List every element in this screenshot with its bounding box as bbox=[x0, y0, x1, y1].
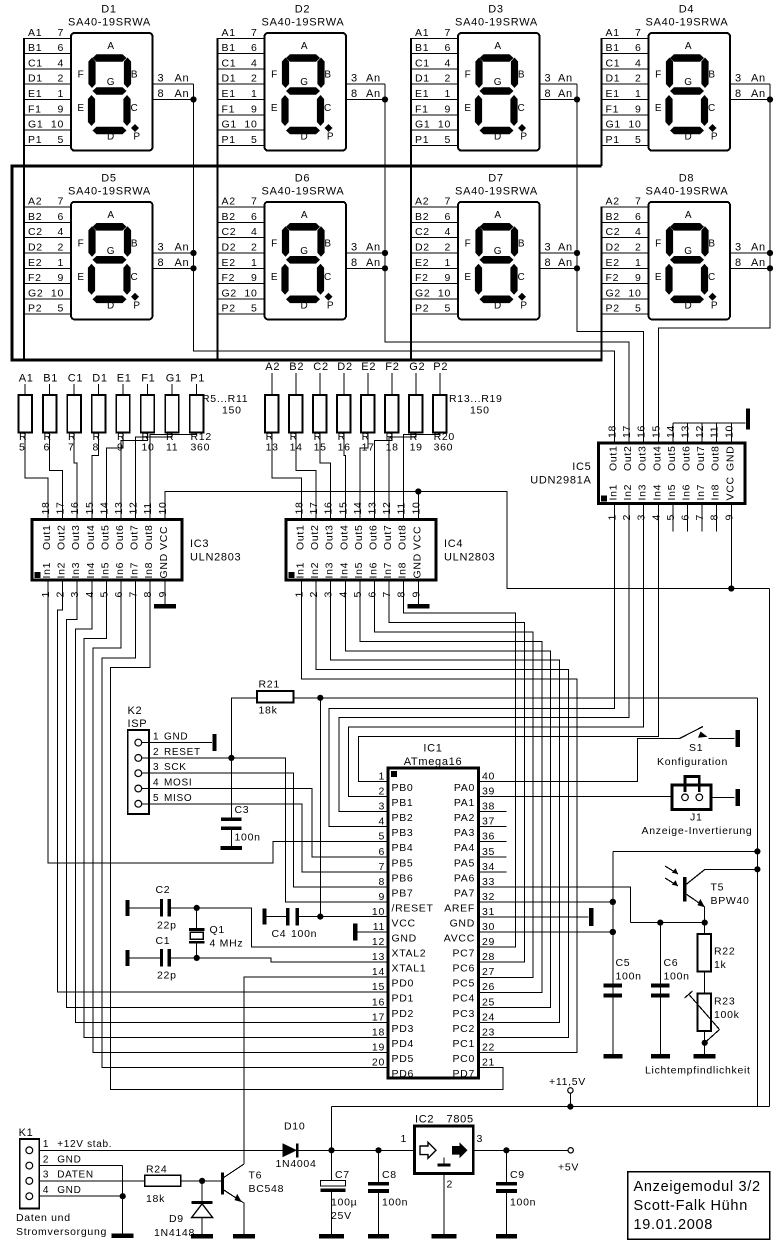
svg-text:Out7: Out7 bbox=[695, 445, 707, 471]
svg-text:E2: E2 bbox=[361, 361, 376, 373]
svg-text:P2: P2 bbox=[433, 361, 448, 373]
svg-text:9: 9 bbox=[57, 103, 64, 115]
svg-text:100n: 100n bbox=[235, 832, 261, 844]
svg-text:C1: C1 bbox=[606, 57, 621, 69]
svg-text:D: D bbox=[301, 132, 309, 143]
svg-text:D1: D1 bbox=[222, 73, 237, 85]
svg-text:DATEN: DATEN bbox=[57, 1170, 94, 1181]
svg-text:Out2: Out2 bbox=[56, 524, 68, 550]
svg-text:17: 17 bbox=[621, 425, 633, 438]
svg-text:16: 16 bbox=[69, 501, 81, 514]
svg-text:PA1: PA1 bbox=[454, 797, 475, 809]
svg-text:11: 11 bbox=[373, 921, 385, 933]
svg-text:9: 9 bbox=[444, 103, 451, 115]
svg-text:B2: B2 bbox=[28, 211, 42, 223]
svg-text:D: D bbox=[107, 300, 115, 311]
svg-text:SA40-19SRWA: SA40-19SRWA bbox=[262, 185, 345, 197]
svg-text:E2: E2 bbox=[606, 257, 620, 269]
svg-text:Out6: Out6 bbox=[368, 524, 380, 550]
svg-text:A: A bbox=[685, 41, 692, 52]
svg-text:P1: P1 bbox=[190, 373, 205, 385]
svg-text:10: 10 bbox=[438, 119, 451, 131]
svg-text:3: 3 bbox=[153, 762, 159, 773]
svg-text:D5: D5 bbox=[101, 172, 116, 184]
svg-text:4: 4 bbox=[378, 816, 385, 828]
svg-text:17: 17 bbox=[372, 1011, 385, 1023]
svg-text:19: 19 bbox=[372, 1041, 385, 1053]
svg-text:MOSI: MOSI bbox=[164, 778, 192, 789]
svg-text:PB7: PB7 bbox=[392, 887, 414, 899]
svg-text:C: C bbox=[324, 103, 332, 114]
svg-text:38: 38 bbox=[482, 801, 495, 813]
svg-text:100n: 100n bbox=[616, 971, 642, 983]
svg-text:A1: A1 bbox=[606, 27, 620, 39]
svg-text:C5: C5 bbox=[616, 957, 631, 969]
svg-text:E2: E2 bbox=[222, 257, 236, 269]
svg-text:Out6: Out6 bbox=[681, 445, 693, 471]
svg-text:P: P bbox=[520, 132, 527, 143]
svg-text:PC4: PC4 bbox=[452, 993, 475, 1005]
svg-text:Out7: Out7 bbox=[382, 524, 394, 550]
svg-text:A2: A2 bbox=[222, 196, 236, 208]
svg-text:4: 4 bbox=[153, 778, 159, 789]
svg-text:14: 14 bbox=[372, 966, 385, 978]
svg-text:XTAL1: XTAL1 bbox=[392, 963, 427, 975]
svg-text:11: 11 bbox=[142, 502, 154, 514]
svg-text:D1: D1 bbox=[101, 4, 116, 16]
svg-text:15: 15 bbox=[84, 501, 96, 514]
svg-text:40: 40 bbox=[482, 771, 495, 783]
svg-text:C: C bbox=[708, 103, 716, 114]
svg-text:F2: F2 bbox=[28, 272, 42, 284]
svg-text:In8: In8 bbox=[710, 484, 722, 501]
svg-text:S1: S1 bbox=[689, 742, 703, 754]
svg-text:SA40-19SRWA: SA40-19SRWA bbox=[262, 17, 345, 29]
svg-text:D: D bbox=[685, 300, 693, 311]
svg-text:2: 2 bbox=[55, 591, 67, 598]
svg-text:10: 10 bbox=[372, 906, 385, 918]
svg-text:1: 1 bbox=[251, 88, 258, 100]
svg-text:10: 10 bbox=[157, 501, 169, 514]
svg-text:F: F bbox=[78, 70, 85, 81]
svg-text:10: 10 bbox=[410, 501, 422, 514]
svg-text:GND: GND bbox=[57, 1154, 81, 1165]
svg-text:P2: P2 bbox=[606, 303, 620, 315]
svg-text:C: C bbox=[708, 272, 716, 283]
svg-text:P: P bbox=[133, 132, 140, 143]
svg-text:G2: G2 bbox=[606, 287, 621, 299]
svg-text:10: 10 bbox=[628, 119, 641, 131]
svg-text:1: 1 bbox=[635, 257, 642, 269]
svg-text:An: An bbox=[558, 242, 573, 254]
svg-text:7: 7 bbox=[635, 196, 642, 208]
svg-text:C: C bbox=[131, 103, 139, 114]
svg-text:19.01.2008: 19.01.2008 bbox=[634, 1217, 714, 1233]
svg-text:8: 8 bbox=[351, 257, 358, 269]
svg-text:D9: D9 bbox=[169, 1213, 184, 1225]
svg-text:SA40-19SRWA: SA40-19SRWA bbox=[455, 17, 538, 29]
svg-text:8: 8 bbox=[709, 514, 721, 521]
svg-text:F: F bbox=[655, 238, 662, 249]
svg-text:5: 5 bbox=[251, 134, 258, 146]
svg-text:+5V: +5V bbox=[558, 1162, 579, 1174]
svg-text:In2: In2 bbox=[622, 484, 634, 501]
svg-text:2: 2 bbox=[57, 73, 64, 85]
svg-text:GND: GND bbox=[411, 553, 423, 578]
svg-text:IC1: IC1 bbox=[423, 743, 442, 755]
svg-text:5: 5 bbox=[352, 591, 364, 598]
svg-text:21: 21 bbox=[482, 1056, 495, 1068]
svg-text:1N4148: 1N4148 bbox=[154, 1227, 195, 1239]
svg-text:SA40-19SRWA: SA40-19SRWA bbox=[455, 185, 538, 197]
svg-text:3: 3 bbox=[158, 242, 165, 254]
svg-text:Out1: Out1 bbox=[41, 524, 53, 550]
svg-text:10: 10 bbox=[244, 119, 257, 131]
svg-text:D1: D1 bbox=[606, 73, 621, 85]
svg-text:9: 9 bbox=[635, 103, 642, 115]
svg-text:29: 29 bbox=[482, 936, 495, 948]
svg-text:A1: A1 bbox=[28, 27, 42, 39]
svg-text:2: 2 bbox=[43, 1154, 49, 1165]
svg-text:15: 15 bbox=[337, 501, 349, 514]
svg-text:11: 11 bbox=[396, 502, 408, 514]
svg-text:31: 31 bbox=[482, 906, 495, 918]
svg-text:C: C bbox=[131, 272, 139, 283]
svg-text:In8: In8 bbox=[143, 562, 155, 579]
svg-text:R22: R22 bbox=[714, 946, 735, 958]
svg-text:15: 15 bbox=[314, 442, 327, 454]
svg-text:An: An bbox=[558, 88, 573, 100]
svg-text:8: 8 bbox=[351, 88, 358, 100]
svg-text:Out4: Out4 bbox=[85, 524, 97, 550]
svg-text:F: F bbox=[78, 238, 85, 249]
svg-text:D3: D3 bbox=[488, 4, 503, 16]
svg-text:C6: C6 bbox=[664, 957, 679, 969]
svg-text:B1: B1 bbox=[222, 42, 236, 54]
svg-text:C9: C9 bbox=[510, 1169, 525, 1181]
svg-text:E: E bbox=[77, 272, 84, 283]
svg-text:PD2: PD2 bbox=[392, 1008, 415, 1020]
svg-text:G1: G1 bbox=[28, 119, 43, 131]
svg-text:7805: 7805 bbox=[447, 1114, 474, 1126]
svg-text:6: 6 bbox=[444, 211, 451, 223]
svg-text:D7: D7 bbox=[488, 172, 503, 184]
svg-text:GND: GND bbox=[158, 553, 170, 578]
svg-text:PB6: PB6 bbox=[392, 872, 414, 884]
svg-text:4: 4 bbox=[251, 57, 258, 69]
svg-text:D: D bbox=[107, 132, 115, 143]
svg-text:17: 17 bbox=[55, 501, 67, 514]
svg-text:C: C bbox=[324, 272, 332, 283]
svg-text:Out4: Out4 bbox=[338, 524, 350, 550]
svg-text:Konfiguration: Konfiguration bbox=[657, 756, 728, 768]
svg-text:B2: B2 bbox=[289, 361, 304, 373]
svg-text:VCC: VCC bbox=[411, 526, 423, 550]
svg-text:16: 16 bbox=[323, 501, 335, 514]
svg-text:G2: G2 bbox=[222, 287, 237, 299]
svg-text:16: 16 bbox=[338, 442, 351, 454]
svg-text:F1: F1 bbox=[141, 373, 155, 385]
svg-text:C: C bbox=[518, 103, 526, 114]
svg-text:In3: In3 bbox=[324, 562, 336, 579]
svg-text:VCC: VCC bbox=[392, 917, 416, 929]
svg-text:7: 7 bbox=[381, 591, 393, 598]
svg-text:PD1: PD1 bbox=[392, 993, 415, 1005]
svg-text:7: 7 bbox=[57, 196, 64, 208]
svg-text:13: 13 bbox=[372, 951, 385, 963]
svg-text:9: 9 bbox=[410, 591, 422, 598]
svg-text:9: 9 bbox=[723, 514, 735, 521]
svg-text:In6: In6 bbox=[114, 562, 126, 579]
svg-text:PD5: PD5 bbox=[392, 1053, 415, 1065]
svg-text:F: F bbox=[465, 70, 472, 81]
svg-text:3: 3 bbox=[735, 73, 742, 85]
svg-text:G1: G1 bbox=[606, 119, 621, 131]
svg-text:Out4: Out4 bbox=[651, 445, 663, 471]
svg-text:14: 14 bbox=[665, 425, 677, 438]
svg-text:6: 6 bbox=[251, 42, 258, 54]
svg-text:100n: 100n bbox=[291, 928, 317, 940]
svg-text:PC0: PC0 bbox=[452, 1053, 475, 1065]
svg-text:P1: P1 bbox=[28, 134, 42, 146]
svg-text:G1: G1 bbox=[166, 373, 182, 385]
svg-text:In7: In7 bbox=[695, 484, 707, 501]
svg-text:XTAL2: XTAL2 bbox=[392, 948, 427, 960]
svg-text:An: An bbox=[175, 73, 190, 85]
svg-text:PC7: PC7 bbox=[452, 948, 475, 960]
svg-text:2: 2 bbox=[57, 242, 64, 254]
svg-text:5: 5 bbox=[251, 303, 258, 315]
svg-text:B1: B1 bbox=[43, 373, 58, 385]
svg-text:6: 6 bbox=[57, 211, 64, 223]
svg-text:D10: D10 bbox=[284, 1121, 305, 1133]
svg-text:5: 5 bbox=[57, 303, 64, 315]
svg-text:D2: D2 bbox=[415, 242, 430, 254]
svg-text:T5: T5 bbox=[711, 882, 725, 894]
svg-text:PB2: PB2 bbox=[392, 812, 414, 824]
svg-text:+11,5V: +11,5V bbox=[549, 1076, 586, 1088]
svg-text:7: 7 bbox=[378, 861, 385, 873]
svg-text:1: 1 bbox=[57, 88, 64, 100]
svg-text:GND: GND bbox=[724, 446, 736, 471]
svg-text:2: 2 bbox=[444, 73, 451, 85]
svg-text:9: 9 bbox=[251, 103, 258, 115]
svg-text:In5: In5 bbox=[353, 562, 365, 579]
svg-text:22p: 22p bbox=[157, 920, 177, 932]
svg-text:7: 7 bbox=[444, 196, 451, 208]
svg-text:1N4004: 1N4004 bbox=[276, 1158, 317, 1170]
svg-text:3: 3 bbox=[636, 514, 648, 521]
svg-text:SA40-19SRWA: SA40-19SRWA bbox=[68, 185, 151, 197]
svg-text:8: 8 bbox=[735, 88, 742, 100]
svg-text:2: 2 bbox=[635, 73, 642, 85]
svg-text:10: 10 bbox=[51, 287, 64, 299]
svg-text:2: 2 bbox=[621, 514, 633, 521]
svg-text:E1: E1 bbox=[28, 88, 42, 100]
svg-text:5: 5 bbox=[153, 793, 159, 804]
svg-text:G: G bbox=[494, 246, 502, 257]
svg-text:C1: C1 bbox=[415, 57, 430, 69]
svg-text:18: 18 bbox=[372, 1026, 385, 1038]
svg-text:P: P bbox=[711, 300, 718, 311]
svg-text:R21: R21 bbox=[259, 679, 280, 691]
svg-text:9: 9 bbox=[251, 272, 258, 284]
svg-text:D2: D2 bbox=[295, 4, 310, 16]
svg-text:B2: B2 bbox=[415, 211, 429, 223]
svg-text:6: 6 bbox=[44, 442, 51, 454]
svg-text:25: 25 bbox=[482, 996, 495, 1008]
svg-text:In7: In7 bbox=[382, 562, 394, 579]
svg-text:VCC: VCC bbox=[724, 476, 736, 500]
svg-text:2: 2 bbox=[251, 242, 258, 254]
svg-text:An: An bbox=[751, 88, 766, 100]
svg-text:GND: GND bbox=[392, 933, 417, 945]
svg-text:3: 3 bbox=[545, 73, 552, 85]
svg-text:J1: J1 bbox=[690, 812, 703, 824]
svg-text:ATmega16: ATmega16 bbox=[404, 756, 463, 768]
svg-text:15: 15 bbox=[650, 425, 662, 438]
svg-text:A1: A1 bbox=[222, 27, 236, 39]
svg-text:An: An bbox=[751, 73, 766, 85]
svg-text:+12V stab.: +12V stab. bbox=[57, 1139, 112, 1150]
svg-text:16: 16 bbox=[636, 425, 648, 438]
svg-text:In2: In2 bbox=[56, 562, 68, 579]
svg-text:6: 6 bbox=[378, 846, 385, 858]
svg-text:C4: C4 bbox=[272, 928, 287, 940]
svg-text:PC1: PC1 bbox=[452, 1038, 475, 1050]
svg-text:2: 2 bbox=[251, 73, 258, 85]
svg-text:A1: A1 bbox=[19, 373, 34, 385]
svg-text:4: 4 bbox=[57, 57, 64, 69]
svg-text:D: D bbox=[301, 300, 309, 311]
svg-text:23: 23 bbox=[482, 1026, 495, 1038]
svg-text:C1: C1 bbox=[156, 935, 171, 947]
svg-text:MISO: MISO bbox=[164, 793, 192, 804]
svg-text:B: B bbox=[131, 70, 138, 81]
svg-text:GND: GND bbox=[450, 917, 475, 929]
svg-text:3: 3 bbox=[323, 591, 335, 598]
svg-text:C2: C2 bbox=[415, 226, 430, 238]
svg-text:10: 10 bbox=[51, 119, 64, 131]
svg-text:9: 9 bbox=[635, 272, 642, 284]
svg-text:8: 8 bbox=[396, 591, 408, 598]
svg-text:5: 5 bbox=[444, 134, 451, 146]
svg-text:K1: K1 bbox=[19, 1127, 34, 1139]
svg-text:F: F bbox=[655, 70, 662, 81]
svg-text:D2: D2 bbox=[222, 242, 237, 254]
svg-text:In4: In4 bbox=[651, 484, 663, 501]
svg-text:19: 19 bbox=[410, 442, 423, 454]
svg-text:4: 4 bbox=[251, 226, 258, 238]
svg-text:Anzeigemodul 3/2: Anzeigemodul 3/2 bbox=[634, 1179, 761, 1195]
svg-text:3: 3 bbox=[158, 73, 165, 85]
svg-text:G2: G2 bbox=[409, 361, 425, 373]
svg-text:Scott-Falk Hühn: Scott-Falk Hühn bbox=[634, 1198, 748, 1214]
svg-text:IC4: IC4 bbox=[444, 538, 463, 550]
svg-text:F1: F1 bbox=[28, 103, 42, 115]
svg-text:8: 8 bbox=[735, 257, 742, 269]
svg-text:PD4: PD4 bbox=[392, 1038, 415, 1050]
svg-text:D: D bbox=[494, 132, 502, 143]
svg-text:Anzeige-Invertierung: Anzeige-Invertierung bbox=[642, 825, 753, 837]
svg-text:18k: 18k bbox=[259, 705, 278, 717]
svg-text:D2: D2 bbox=[606, 242, 621, 254]
svg-text:UDN2981A: UDN2981A bbox=[530, 475, 591, 487]
svg-text:100k: 100k bbox=[714, 1009, 740, 1021]
svg-text:G: G bbox=[300, 77, 308, 88]
svg-text:7: 7 bbox=[694, 514, 706, 521]
svg-text:E: E bbox=[464, 272, 471, 283]
svg-text:2: 2 bbox=[308, 591, 320, 598]
svg-text:12: 12 bbox=[372, 936, 385, 948]
svg-text:G: G bbox=[107, 77, 115, 88]
svg-text:A: A bbox=[301, 210, 308, 221]
svg-text:3: 3 bbox=[351, 73, 358, 85]
svg-text:1: 1 bbox=[400, 1133, 407, 1145]
svg-text:In5: In5 bbox=[99, 562, 111, 579]
svg-text:33: 33 bbox=[482, 876, 495, 888]
svg-text:RESET: RESET bbox=[164, 747, 201, 758]
svg-text:PB5: PB5 bbox=[392, 857, 414, 869]
svg-text:C1: C1 bbox=[68, 373, 83, 385]
svg-text:D: D bbox=[494, 300, 502, 311]
svg-text:Stromversorgung: Stromversorgung bbox=[16, 1226, 107, 1238]
svg-text:7: 7 bbox=[251, 196, 258, 208]
svg-text:9: 9 bbox=[157, 591, 169, 598]
svg-text:P: P bbox=[520, 300, 527, 311]
svg-text:B: B bbox=[324, 238, 331, 249]
svg-text:4: 4 bbox=[650, 514, 662, 521]
svg-text:28: 28 bbox=[482, 951, 495, 963]
svg-text:D6: D6 bbox=[295, 172, 310, 184]
svg-text:PD6: PD6 bbox=[392, 1068, 415, 1080]
svg-text:BPW40: BPW40 bbox=[711, 895, 750, 907]
svg-text:ULN2803: ULN2803 bbox=[190, 552, 241, 564]
svg-text:P: P bbox=[133, 300, 140, 311]
svg-text:D4: D4 bbox=[679, 4, 694, 16]
svg-text:8: 8 bbox=[545, 88, 552, 100]
svg-text:100µ: 100µ bbox=[331, 1197, 357, 1209]
svg-text:F1: F1 bbox=[222, 103, 236, 115]
svg-text:SA40-19SRWA: SA40-19SRWA bbox=[646, 17, 729, 29]
svg-text:12: 12 bbox=[694, 425, 706, 438]
svg-text:17: 17 bbox=[308, 501, 320, 514]
svg-text:AREF: AREF bbox=[444, 902, 475, 914]
svg-text:D1: D1 bbox=[92, 373, 107, 385]
svg-text:32: 32 bbox=[482, 891, 495, 903]
svg-text:Lichtempfindlichkeit: Lichtempfindlichkeit bbox=[645, 1065, 751, 1077]
svg-text:A: A bbox=[107, 41, 114, 52]
svg-text:F2: F2 bbox=[222, 272, 236, 284]
svg-text:An: An bbox=[558, 257, 573, 269]
svg-text:B: B bbox=[708, 70, 715, 81]
svg-text:In1: In1 bbox=[295, 562, 307, 579]
svg-text:PB0: PB0 bbox=[392, 782, 414, 794]
svg-text:Out8: Out8 bbox=[397, 524, 409, 550]
svg-text:F: F bbox=[271, 70, 278, 81]
svg-text:SA40-19SRWA: SA40-19SRWA bbox=[646, 185, 729, 197]
svg-text:E: E bbox=[271, 103, 278, 114]
svg-text:1: 1 bbox=[378, 771, 385, 783]
svg-text:E1: E1 bbox=[222, 88, 236, 100]
svg-text:G: G bbox=[684, 246, 692, 257]
svg-text:D: D bbox=[685, 132, 693, 143]
svg-text:G: G bbox=[494, 77, 502, 88]
svg-text:10: 10 bbox=[142, 442, 155, 454]
svg-text:C2: C2 bbox=[222, 226, 237, 238]
svg-text:6: 6 bbox=[251, 211, 258, 223]
svg-text:6: 6 bbox=[367, 591, 379, 598]
